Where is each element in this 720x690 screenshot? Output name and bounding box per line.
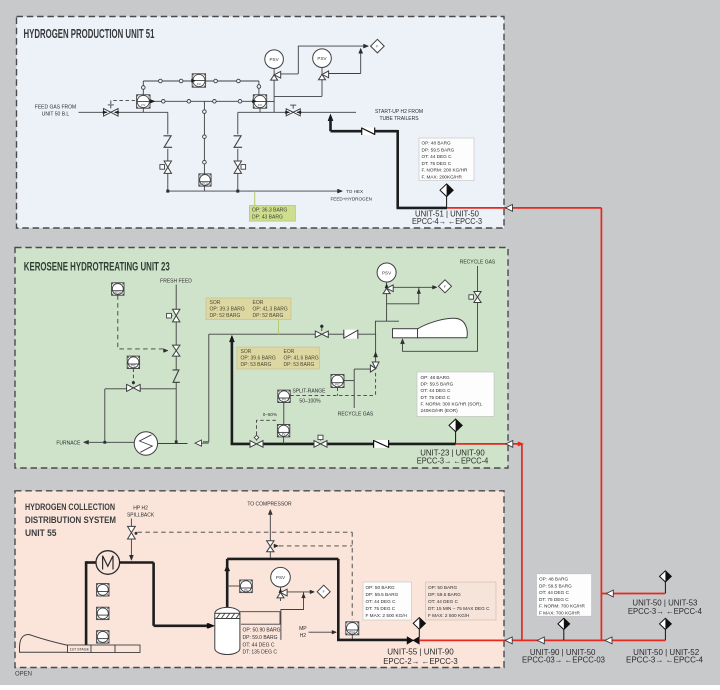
svg-text:F: F [376,45,378,49]
svg-text:240KG/HR (EOR): 240KG/HR (EOR) [421,408,459,413]
svg-text:FEED+HYDROGEN: FEED+HYDROGEN [331,196,372,201]
svg-text:OT: 44 DEG C: OT: 44 DEG C [366,599,397,604]
svg-text:DT: 135 DEG C: DT: 135 DEG C [243,650,278,656]
svg-text:FV: FV [141,103,145,107]
svg-text:F MAX: 2 500 KG/H: F MAX: 2 500 KG/H [428,613,469,618]
svg-text:DP: 52 BARG: DP: 52 BARG [210,313,241,319]
svg-text:EPCC-3→ ←EPCC-4: EPCC-3→ ←EPCC-4 [626,655,704,664]
svg-text:UNIT-55 | UNIT-90: UNIT-55 | UNIT-90 [387,647,454,656]
svg-text:PCV: PCV [202,181,208,185]
svg-text:UNIT 50 B.L: UNIT 50 B.L [42,112,70,118]
svg-text:F. NORM: 300 KG/HR (SOR),: F. NORM: 300 KG/HR (SOR), [421,401,483,406]
svg-text:OP: 39.6 BARG: OP: 39.6 BARG [241,356,276,362]
svg-text:OPEN: OPEN [15,672,32,678]
svg-text:OT: 44 DEG C: OT: 44 DEG C [428,599,459,604]
svg-text:OT: 44 DEG C: OT: 44 DEG C [421,388,452,393]
svg-text:OP: 48 BARG: OP: 48 BARG [421,375,451,380]
svg-text:START-UP H2 FROM: START-UP H2 FROM [375,109,423,115]
svg-text:TO COMPRESSOR: TO COMPRESSOR [247,501,292,507]
svg-text:PSV: PSV [276,575,286,580]
svg-text:1ST STAGE: 1ST STAGE [70,648,90,652]
svg-text:PV: PV [282,398,286,402]
svg-text:KEROSENE HYDROTREATING UNIT 23: KEROSENE HYDROTREATING UNIT 23 [24,259,170,273]
svg-text:OP: 36.3 BARG: OP: 36.3 BARG [252,208,287,214]
svg-text:FURNACE: FURNACE [56,440,81,446]
svg-text:DP: 59.5 BARG: DP: 59.5 BARG [366,592,399,597]
svg-text:SPLIT-RANGE: SPLIT-RANGE [292,388,326,394]
svg-text:OP: 41.3 BARG: OP: 41.3 BARG [253,306,288,312]
svg-text:EPCC-03→ ←EPCC-03: EPCC-03→ ←EPCC-03 [522,655,606,664]
svg-text:PIC: PIC [131,364,136,368]
svg-text:DT: 15 MIN – 75 MAX DEG C: DT: 15 MIN – 75 MAX DEG C [428,606,490,611]
svg-text:DT: 75 DEG C: DT: 75 DEG C [366,606,396,611]
svg-text:OP: 50.90 BARG: OP: 50.90 BARG [243,628,281,634]
svg-text:DP: 59.0 BARG: DP: 59.0 BARG [243,635,278,641]
svg-text:EPCC-3→ ←EPCC-4: EPCC-3→ ←EPCC-4 [417,457,489,466]
svg-text:RECYCLE GAS: RECYCLE GAS [460,260,496,266]
svg-text:FRESH FEED: FRESH FEED [160,279,192,285]
svg-text:EPCC-3→ ←EPCC-4: EPCC-3→ ←EPCC-4 [628,607,703,616]
svg-text:SPILLBACK: SPILLBACK [127,513,155,519]
svg-text:PV: PV [282,432,286,436]
svg-text:SOR: SOR [241,349,252,355]
svg-text:DP: 59.5 BARG: DP: 59.5 BARG [422,147,455,152]
svg-text:DT: 75 DEG C: DT: 75 DEG C [421,395,451,400]
svg-text:MP: MP [299,626,307,632]
svg-text:F MAX: 2 500 KG/H: F MAX: 2 500 KG/H [366,613,407,618]
svg-text:DISTRIBUTION SYSTEM: DISTRIBUTION SYSTEM [25,515,116,526]
svg-text:F: F [323,590,325,594]
svg-text:DP: 52 BARG: DP: 52 BARG [253,313,284,319]
svg-text:TUBE TRAILERS: TUBE TRAILERS [379,116,419,122]
svg-text:EOR: EOR [284,349,295,355]
svg-text:OP: 48 BARG: OP: 48 BARG [422,141,452,146]
svg-text:OP: 48 BARG: OP: 48 BARG [539,577,569,582]
svg-text:EOR: EOR [253,300,264,306]
svg-text:FEED GAS FROM: FEED GAS FROM [35,105,76,111]
svg-text:EPCC-2→ ←EPCC-3: EPCC-2→ ←EPCC-3 [383,657,458,666]
svg-text:SOR: SOR [210,300,221,306]
svg-text:FV: FV [258,103,262,107]
svg-text:UNIT 55: UNIT 55 [25,528,57,539]
svg-text:DT: 75 DEG C: DT: 75 DEG C [422,161,452,166]
svg-text:OP: 41.6 BARG: OP: 41.6 BARG [284,356,319,362]
svg-text:F: F [444,285,446,289]
svg-text:OT: 44 DEG C: OT: 44 DEG C [422,154,453,159]
svg-text:PIC: PIC [335,383,340,387]
svg-text:HYDROGEN PRODUCTION UNIT 51: HYDROGEN PRODUCTION UNIT 51 [24,27,155,41]
svg-text:PCA: PCA [349,630,355,634]
svg-text:HYDROGEN COLLECTION: HYDROGEN COLLECTION [25,502,115,513]
svg-text:F. NORM: 700 KG/HR: F. NORM: 700 KG/HR [539,604,585,609]
svg-text:DP: 43 BARG: DP: 43 BARG [252,214,283,220]
svg-text:FV: FV [197,82,201,86]
svg-text:RECYCLE GAS: RECYCLE GAS [338,411,374,417]
svg-text:OT: 44 DEG C: OT: 44 DEG C [243,642,275,648]
svg-text:TO HEX: TO HEX [346,189,363,194]
svg-text:DP: 59.5 BARG: DP: 59.5 BARG [428,592,461,597]
svg-text:OT: 44 DEG C: OT: 44 DEG C [539,590,570,595]
svg-text:PSV: PSV [317,56,327,61]
svg-text:PSV: PSV [269,57,279,62]
svg-text:F. MAX: 200KG/HR: F. MAX: 200KG/HR [422,175,463,180]
svg-text:0–50%: 0–50% [263,412,277,417]
svg-text:EPCC-4→ ←EPCC-3: EPCC-4→ ←EPCC-3 [412,217,483,226]
svg-text:OP: 50 BARG: OP: 50 BARG [428,585,458,590]
svg-text:OP: 39.3 BARG: OP: 39.3 BARG [210,306,245,312]
svg-text:FICA: FICA [115,290,122,294]
svg-text:DT: 75 DEG C: DT: 75 DEG C [539,597,569,602]
svg-text:DP: 53 BARG: DP: 53 BARG [241,362,272,368]
svg-text:50–100%: 50–100% [299,399,321,405]
svg-text:DP: 59.5 BARG: DP: 59.5 BARG [539,583,572,588]
svg-text:OP: 50 BARG: OP: 50 BARG [366,585,396,590]
svg-text:PSV: PSV [382,270,392,275]
svg-text:H2: H2 [300,633,307,639]
svg-text:DP: 53 BARG: DP: 53 BARG [284,362,315,368]
svg-text:PA: PA [244,588,248,592]
svg-text:F. NORM: 200 KG/HR: F. NORM: 200 KG/HR [422,168,468,173]
svg-text:HP H2: HP H2 [133,506,148,512]
svg-text:F MAX: 700 KG/HR: F MAX: 700 KG/HR [539,611,581,616]
svg-text:DP: 59.5 BARG: DP: 59.5 BARG [421,382,454,387]
